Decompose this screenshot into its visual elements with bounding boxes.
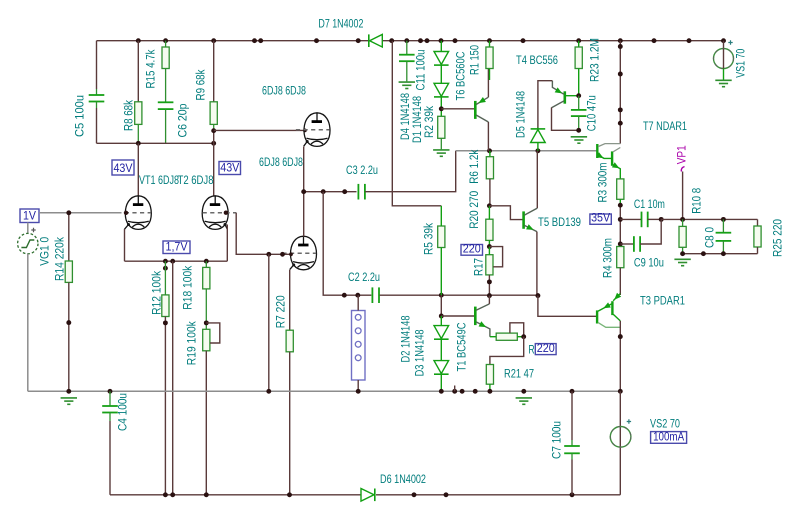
wire U3 cathode node to C2 node: [323, 192, 371, 296]
resistor R19 100k (with trimmer loop): [203, 329, 210, 351]
resistor R18 100k: [205, 261, 207, 267]
wire collector drop x620: [619, 41, 621, 144]
ground below C11: [399, 82, 415, 88]
svg-text:R4 300m: R4 300m: [603, 238, 615, 278]
svg-text:T7 NDAR1: T7 NDAR1: [643, 121, 687, 133]
svg-text:R1 150: R1 150: [470, 45, 482, 75]
svg-text:220: 220: [463, 243, 481, 255]
svg-text:C8 0: C8 0: [705, 227, 717, 248]
capacitor C1 10m: [620, 218, 641, 220]
svg-text:VP1: VP1: [677, 145, 689, 164]
capacitor C2 2.2u: [371, 287, 373, 303]
svg-text:R12 100k: R12 100k: [152, 271, 164, 315]
ground below C10: [571, 137, 587, 143]
resistor R14 220k: [68, 213, 70, 261]
tube U3 6DJ8 (upper follower): [296, 113, 330, 147]
svg-text:6DJ8 6DJ8: 6DJ8 6DJ8: [259, 157, 303, 169]
wire driver net (grey): [456, 150, 598, 152]
diode D6 1N4002: [361, 489, 374, 502]
svg-text:C2 2.2u: C2 2.2u: [348, 272, 380, 284]
svg-text:R9 68k: R9 68k: [196, 69, 208, 100]
capacitor C11 100u: [406, 41, 408, 55]
node label 1V: [20, 209, 39, 223]
resistor R1 150: [489, 41, 491, 47]
wire load bottom: [683, 253, 758, 255]
capacitor C3 2.2u: [357, 184, 359, 200]
wire U4 cathode via R7: [289, 270, 291, 330]
wire grid tube3 from R9: [214, 129, 305, 131]
svg-text:T3 PDAR1: T3 PDAR1: [640, 296, 685, 308]
capacitor C5 100u: [96, 41, 98, 89]
resistor R7 220: [286, 330, 293, 352]
svg-text:1V: 1V: [23, 211, 36, 223]
node label 1,7V: [163, 241, 190, 254]
wire bottom return rail: [110, 494, 361, 496]
ground below VS1: [715, 80, 731, 86]
svg-text:R2 39k: R2 39k: [424, 106, 436, 138]
wire R16 to R21: [490, 337, 524, 365]
wire C3 right to grey driver net: [365, 151, 456, 192]
svg-text:D7 1N4002: D7 1N4002: [318, 18, 363, 30]
svg-text:VS1 70: VS1 70: [736, 49, 748, 78]
resistor R23 1.2M: [578, 41, 580, 47]
wire VG1 to ground rail: [27, 254, 29, 391]
diode D7 1N4002: [370, 34, 383, 47]
wire C2 node: [380, 294, 538, 296]
diode D1 1N4148: [440, 65, 442, 83]
resistor R10 8: [679, 226, 686, 247]
svg-text:C3 2.2u: C3 2.2u: [346, 165, 378, 177]
wire grid net to ground rail: [268, 254, 270, 391]
diode D4 1N4148: [440, 41, 442, 52]
svg-text:R3 300m: R3 300m: [598, 163, 610, 203]
svg-text:R21 47: R21 47: [504, 369, 534, 381]
tube U4 6DJ8 (lower follower): [282, 236, 316, 270]
svg-text:R17: R17: [473, 258, 485, 276]
wire top supply rail: [97, 40, 369, 42]
resistor R2 39k: [438, 116, 445, 138]
capacitor C7 100u: [571, 391, 573, 440]
node label 43V (T2 anode): [219, 162, 241, 175]
ground mid rail: [516, 398, 532, 404]
wire T1 base net: [440, 295, 442, 316]
resistor R12 100k: [164, 261, 166, 295]
svg-text:D2 1N4148: D2 1N4148: [401, 316, 413, 363]
node label 43V (VT1 anode): [112, 160, 134, 175]
resistor R16 220 (trimmer, horizontal): [490, 336, 496, 338]
svg-text:C4 100u: C4 100u: [118, 393, 130, 431]
svg-text:T1 BC549C: T1 BC549C: [457, 323, 469, 372]
svg-text:T6 BC560C: T6 BC560C: [456, 52, 468, 101]
svg-text:T4 BC556: T4 BC556: [516, 55, 558, 67]
svg-text:R15 4.7k: R15 4.7k: [146, 49, 158, 88]
svg-text:R8 68k: R8 68k: [124, 100, 136, 131]
resistor R9 68k: [213, 41, 215, 102]
resistor R5 39k: [438, 226, 445, 248]
capacitor C10 47u: [576, 93, 581, 98]
svg-text:R25 220: R25 220: [773, 219, 785, 257]
capacitor C8 0: [722, 219, 724, 232]
capacitor C4 100u: [109, 391, 111, 406]
wire node U3 cathode to C3: [304, 191, 357, 193]
resistor R8 68k: [137, 41, 139, 102]
wire cathode rail VT1-T2: [124, 229, 126, 261]
svg-text:R14 220k: R14 220k: [55, 237, 67, 281]
svg-text:VS2 70: VS2 70: [650, 418, 680, 430]
capacitor C6 20p: [158, 101, 174, 103]
resistor R6 1.2k: [489, 151, 491, 157]
svg-text:R7 220: R7 220: [276, 295, 288, 328]
svg-text:C1 10m: C1 10m: [634, 199, 665, 211]
source VS2 70: [619, 391, 621, 495]
svg-text:100mA: 100mA: [653, 432, 684, 444]
svg-text:R20 270: R20 270: [469, 191, 481, 229]
svg-text:VG1 0: VG1 0: [40, 237, 52, 266]
wire input net (grey) to VT1 grid: [39, 212, 121, 214]
resistor R21 47: [486, 365, 493, 385]
wire connector leads: [357, 295, 359, 310]
node label 35V: [590, 214, 611, 224]
svg-text:C10 47u: C10 47u: [587, 95, 599, 131]
wire anode node VT1/T2 (43V net): [97, 142, 214, 144]
svg-text:220: 220: [537, 343, 555, 355]
svg-text:C5 100u: C5 100u: [75, 95, 87, 137]
capacitor C9 10u: [620, 243, 634, 245]
svg-text:6DJ8 6DJ8: 6DJ8 6DJ8: [262, 86, 306, 98]
tube VT1 6DJ8: [117, 196, 151, 230]
wire D1/R2 node to T6 base: [441, 108, 474, 110]
svg-text:D3 1N4148: D3 1N4148: [415, 329, 427, 376]
junction dots top rail: [136, 38, 141, 43]
probe VP1: [681, 167, 684, 172]
wire T2 grid to U4 grid: [224, 211, 228, 215]
svg-text:D5 1N4148: D5 1N4148: [516, 91, 528, 138]
node label 220 (R17): [461, 245, 483, 256]
transistor T4 BC556: [563, 91, 566, 103]
svg-text:VT1 6DJ8: VT1 6DJ8: [139, 175, 179, 187]
diode D2 1N4148: [440, 316, 442, 326]
ground below R10: [674, 259, 690, 265]
resistor R15 4.7k: [165, 41, 167, 47]
resistor R20 270: [487, 203, 492, 208]
svg-text:1,7V: 1,7V: [166, 242, 188, 254]
resistor R17 (trimmer): [487, 244, 492, 249]
resistor R25 220: [757, 219, 759, 226]
svg-text:43V: 43V: [114, 163, 133, 175]
transistor T7 NDAR1 (darlington): [596, 144, 598, 158]
wire U3 cathode to U4 anode: [303, 146, 305, 236]
transistor T1 BC549C: [474, 307, 477, 326]
diode D3 1N4148: [440, 340, 442, 361]
svg-text:D4 1N4148: D4 1N4148: [400, 93, 412, 140]
svg-text:R23 1.2M: R23 1.2M: [590, 38, 602, 82]
wire ground rail (grey): [28, 390, 621, 392]
wire T3 base route: [538, 296, 597, 317]
transistor T6 BC560C: [474, 101, 477, 119]
wire cathode net to bottom rail: [172, 261, 174, 495]
resistor R4 300m: [617, 247, 624, 268]
diode D5 1N4148: [537, 128, 539, 130]
source VS1 70: [723, 41, 725, 49]
wire T4 emitter to D5: [538, 81, 553, 129]
svg-text:C6 20p: C6 20p: [178, 104, 190, 138]
svg-text:C7 100u: C7 100u: [552, 421, 564, 459]
current label 100mA: [651, 432, 687, 444]
svg-text:D1 1N4148: D1 1N4148: [412, 96, 424, 143]
connector J1: [352, 311, 366, 381]
svg-text:35V: 35V: [591, 213, 610, 225]
source VG1: [27, 223, 29, 234]
svg-text:R19 100k: R19 100k: [187, 321, 199, 365]
svg-text:R10 8: R10 8: [692, 188, 704, 214]
svg-text:43V: 43V: [220, 163, 239, 175]
wire rail to R5 via left drop: [392, 41, 441, 206]
svg-text:R6 1.2k: R6 1.2k: [469, 149, 481, 183]
resistor R3 300m: [617, 179, 624, 199]
svg-text:T2 6DJ8: T2 6DJ8: [178, 175, 214, 187]
wire output to load: [661, 218, 757, 220]
svg-text:D6 1N4002: D6 1N4002: [380, 474, 426, 486]
svg-text:C9 10u: C9 10u: [634, 258, 664, 270]
svg-text:C11 100u: C11 100u: [416, 50, 428, 91]
tube T2 6DJ8: [202, 196, 236, 230]
ground stub tick: [454, 386, 456, 392]
wire output node drops: [619, 205, 621, 246]
svg-text:R5 39k: R5 39k: [424, 223, 436, 255]
transistor T3 PDAR1 (darlington PNP): [619, 293, 621, 296]
ground below input rail: [61, 398, 77, 404]
svg-text:T5 BD139: T5 BD139: [538, 217, 581, 229]
transistor T5 BD139: [489, 206, 522, 220]
ground below R2: [433, 150, 449, 156]
svg-text:R18 100k: R18 100k: [183, 265, 195, 309]
